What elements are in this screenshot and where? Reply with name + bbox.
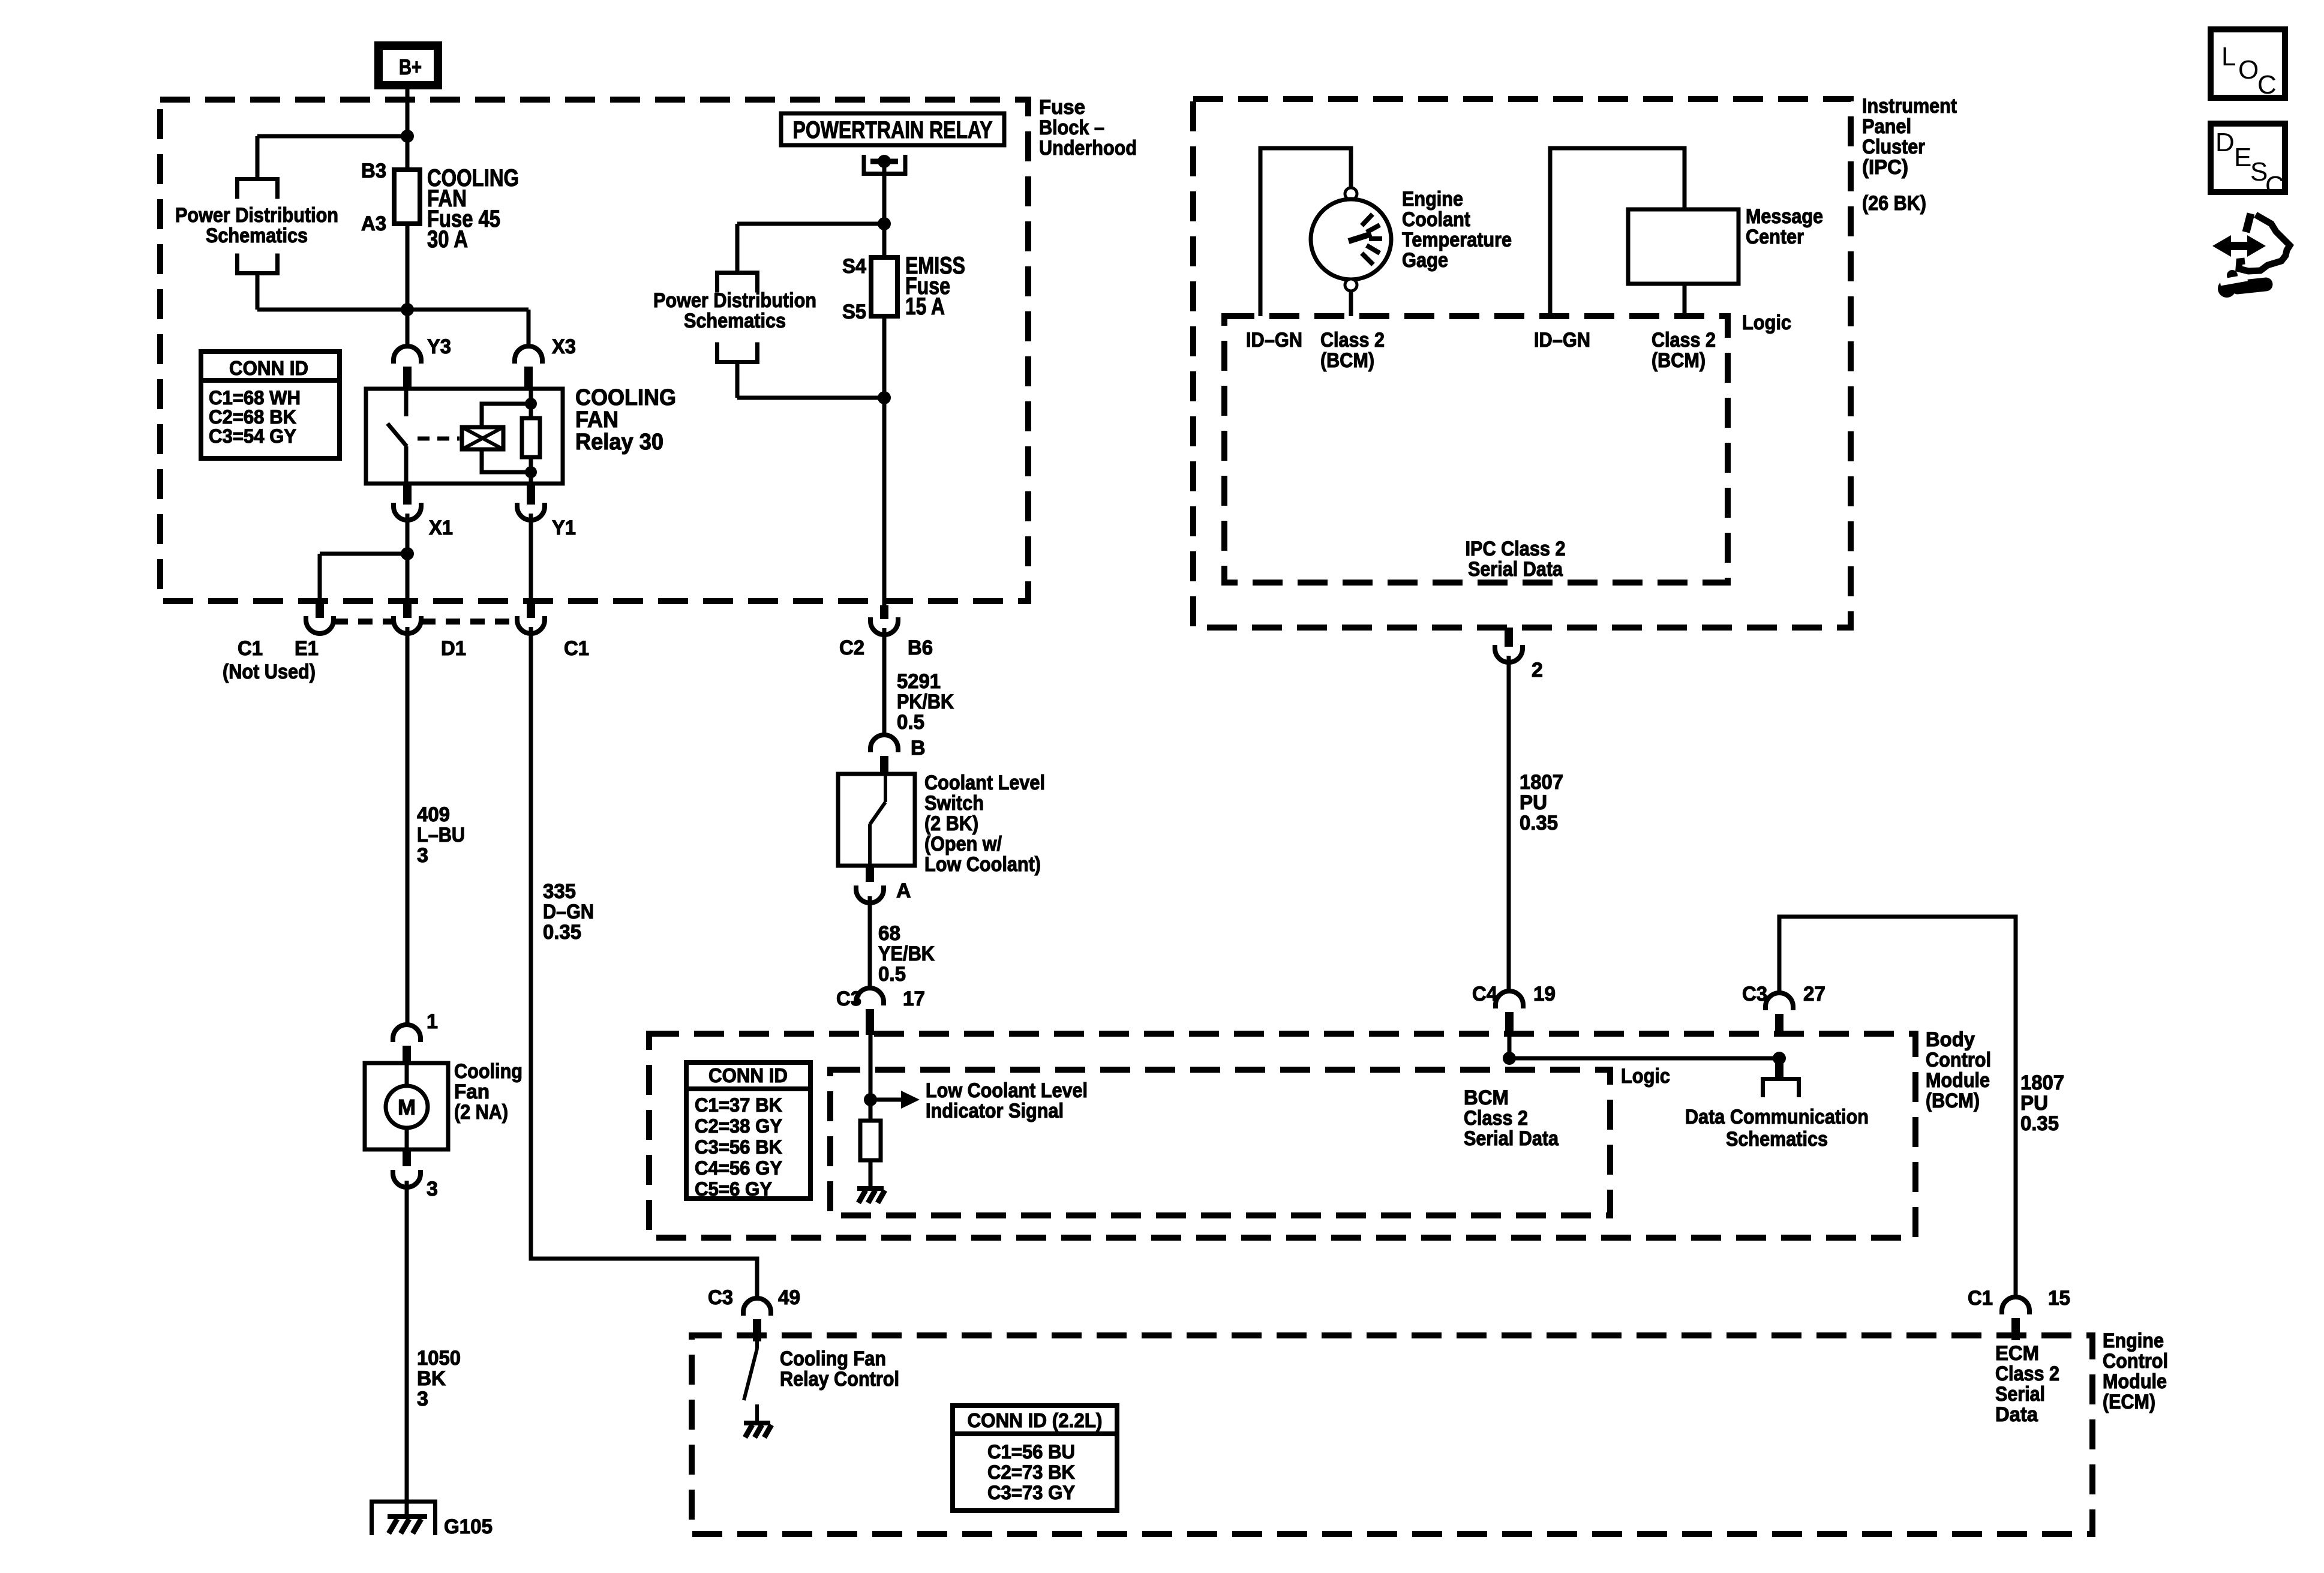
label C2 [839,637,864,659]
svg-text:M: M [398,1095,416,1119]
label COOLING FAN Relay 30 [575,385,676,455]
label X1 [429,517,453,539]
wire 335 D-GN 0.35 [531,627,757,1298]
relay coil wiring [482,404,531,472]
relay actuation dashed link [418,437,460,441]
connector table CONN ID 2.2L [950,1406,1119,1511]
svg-text:3: 3 [417,844,428,867]
label C1 (left) [238,637,263,660]
label circuit 5291 PK/BK 0.5 [897,670,954,734]
label 49 [778,1286,800,1309]
label circuit 1050 BK 3 [417,1347,461,1410]
connector pin Y1 [517,484,545,520]
connector pin A coolant level switch [856,866,884,903]
label pin 1 [427,1010,438,1033]
wire to power distribution (EMISS) [737,224,884,272]
svg-text:Switch: Switch [924,792,984,815]
connector C3 cavity 27 (BCM) [1765,993,1793,1035]
svg-text:A: A [896,879,911,902]
label Power Distribution Schematics (fuse block) [175,204,338,247]
label Fuse Block - Underhood [1039,96,1137,160]
label C4 [1472,983,1497,1005]
svg-text:O: O [2238,55,2259,85]
svg-text:C4: C4 [1472,983,1497,1005]
svg-text:Module: Module [2103,1370,2167,1393]
svg-text:Underhood: Underhood [1039,137,1137,160]
svg-text:C1: C1 [1968,1287,1993,1310]
off-page reference Power Distribution Schematics (fuse block) [238,179,278,274]
svg-text:Gage: Gage [1402,249,1448,272]
svg-text:E1: E1 [295,637,319,660]
svg-text:CONN ID: CONN ID [229,357,308,379]
svg-text:1050: 1050 [417,1347,461,1370]
svg-text:C1=56 BU: C1=56 BU [987,1441,1075,1463]
svg-text:Schematics: Schematics [684,310,786,332]
motor M cooling fan [365,1063,448,1149]
svg-text:C3=56 BK: C3=56 BK [695,1136,782,1158]
svg-text:Fan: Fan [454,1080,490,1103]
label E1 [295,637,319,660]
svg-text:Relay 30: Relay 30 [575,430,663,455]
svg-text:S5: S5 [842,301,866,323]
wire to connector C2 B6 [882,398,887,605]
svg-text:335: 335 [543,880,576,903]
svg-text:B+: B+ [399,55,422,79]
svg-text:PK/BK: PK/BK [897,691,954,713]
svg-text:(BCM): (BCM) [1652,349,1706,372]
ECM driver switch cooling fan relay control [744,1341,757,1421]
svg-text:2: 2 [1532,659,1543,682]
svg-text:B3: B3 [361,160,386,182]
junction node BCM serial data (C4) [1503,1052,1516,1065]
svg-text:Logic: Logic [1621,1065,1670,1088]
svg-text:X1: X1 [429,517,453,539]
label C3 (27) [1742,983,1767,1005]
svg-text:Schematics: Schematics [1726,1128,1828,1151]
svg-text:Logic: Logic [1742,311,1791,334]
label Coolant Level Switch (2 BK) (Open w/ Low Coolant) [924,772,1045,876]
svg-text:C: C [2257,70,2277,100]
svg-text:L: L [2221,42,2236,71]
label Engine Coolant Temperature Gage [1402,188,1512,272]
wire C3-17 into BCM [869,1035,873,1121]
connector table CONN ID fuse block [199,352,342,458]
label Cooling Fan (2 NA) [454,1060,523,1124]
svg-text:YE/BK: YE/BK [878,942,935,965]
svg-text:CONN ID: CONN ID [708,1064,788,1086]
connector pin X1 [394,484,421,520]
label ID-GN (gauge) [1246,329,1302,352]
svg-text:0.5: 0.5 [897,711,924,734]
label C1 (right) [564,637,589,660]
svg-text:BK: BK [417,1367,446,1390]
svg-text:C3: C3 [708,1286,733,1309]
connector pin B coolant level switch [870,735,898,774]
label IPC Class 2 Serial Data [1466,538,1566,581]
label circuit 1807 PU 0.35 (IPC run) [1520,771,1563,834]
label Low Coolant Level Indicator Signal [926,1079,1088,1122]
svg-text:409: 409 [417,803,450,826]
svg-text:L–BU: L–BU [417,824,465,846]
svg-text:(Not Used): (Not Used) [223,661,316,683]
wire B+ to fuse 45 [406,84,410,170]
svg-text:Y1: Y1 [552,517,576,539]
label Y3 [427,335,451,358]
svg-text:Engine: Engine [2103,1329,2164,1352]
wire fuse 45 to relay feed [257,224,529,347]
label BCM Class 2 Serial Data [1464,1086,1559,1150]
svg-text:PU: PU [2020,1092,2048,1115]
label C1 (15) [1968,1287,1993,1310]
label EMISS Fuse 15 A [905,253,965,320]
svg-text:Coolant Level: Coolant Level [924,772,1045,794]
svg-text:0.35: 0.35 [543,921,581,944]
svg-text:Power Distribution: Power Distribution [653,289,816,312]
pin label S4 [842,255,866,278]
svg-text:Control: Control [2103,1350,2168,1373]
svg-text:G105: G105 [444,1515,493,1538]
wire resistor to ground [869,1160,873,1187]
label 17 [903,987,925,1010]
svg-text:POWERTRAIN RELAY: POWERTRAIN RELAY [793,117,993,143]
svg-text:C3=54 GY: C3=54 GY [209,425,296,447]
icon DESC [2211,124,2285,200]
svg-text:Data Communication: Data Communication [1685,1106,1869,1128]
junction node coil bottom [525,466,537,478]
svg-text:C2=68 BK: C2=68 BK [209,406,296,428]
wire 68 YE/BK 0.5 [868,896,872,988]
wire X1 down with branch to E1 [320,514,407,601]
svg-text:C2: C2 [839,637,864,659]
wire message center feed [1550,148,1685,316]
svg-text:D: D [2215,128,2235,157]
label Engine Control Module (ECM) [2103,1329,2168,1413]
svg-text:(BCM): (BCM) [1926,1089,1980,1112]
svg-text:Serial Data: Serial Data [1468,558,1563,581]
svg-text:C3=73 GY: C3=73 GY [987,1482,1075,1503]
pin label A3 [361,212,386,235]
svg-text:IPC Class 2: IPC Class 2 [1466,538,1566,560]
connector pin 2 IPC [1495,628,1523,662]
svg-text:15 A: 15 A [905,293,945,320]
svg-text:COOLING: COOLING [575,385,676,410]
label Message Center [1746,205,1823,248]
label circuit 1807 PU 0.35 (ECM run) [2020,1071,2064,1135]
label pin 2 [1532,659,1543,682]
connector C1 cavity E1 (not used) [306,601,334,634]
label 19 [1533,983,1556,1005]
svg-text:Serial Data: Serial Data [1464,1127,1559,1150]
connector C2 cavity B6 [870,605,898,635]
BCM logic dashed boundary [830,1070,1610,1215]
svg-text:ECM: ECM [1995,1342,2039,1365]
label 15 [2048,1287,2070,1310]
label Logic (BCM) [1621,1065,1670,1088]
label (Not Used) [223,661,316,683]
svg-text:CONN ID (2.2L): CONN ID (2.2L) [968,1409,1103,1431]
connector pin X3 [515,346,542,389]
off-page reference Power Distribution Schematics (EMISS) [717,273,758,362]
connector face dotted line [334,619,517,625]
svg-text:Engine: Engine [1402,188,1463,211]
label X3 [552,335,576,358]
svg-text:Data: Data [1995,1403,2038,1426]
connector pin 3 cooling fan [393,1149,421,1187]
svg-text:E: E [2234,143,2251,172]
connector pin 1 cooling fan [393,1025,421,1063]
svg-text:Indicator Signal: Indicator Signal [926,1100,1064,1122]
svg-text:Temperature: Temperature [1402,229,1512,251]
junction node powertrain feed [878,217,891,230]
svg-text:ID–GN: ID–GN [1534,329,1590,352]
svg-text:Panel: Panel [1862,115,1911,138]
svg-text:BCM: BCM [1464,1086,1509,1109]
wire 1050 BK 3 [405,1181,409,1515]
label circuit 68 YE/BK 0.5 [878,922,935,986]
off-page reference Data Communication Schematics [1763,1079,1799,1098]
label D1 [441,637,466,660]
svg-text:(BCM): (BCM) [1320,349,1374,372]
connector C1 cavity C1(right) [517,601,545,634]
svg-text:A3: A3 [361,212,386,235]
wire EMISS fuse down [737,316,884,398]
wire branch to power distribution (top) [257,136,407,179]
connector C3 cavity 49 (ECM) [743,1298,771,1341]
wire Y1 down [529,514,533,601]
fuse EMISS 15A [871,257,897,316]
svg-text:Center: Center [1746,226,1804,248]
wire gauge feed [1260,148,1351,316]
engine control module dashed boundary [692,1335,2092,1534]
junction node below B+ [401,130,414,143]
svg-text:Cooling Fan: Cooling Fan [780,1347,886,1370]
connector C3 cavity 17 (BCM) [856,988,884,1035]
svg-text:Class 2: Class 2 [1320,329,1385,352]
label Instrument Panel Cluster (IPC) (26 BK) [1862,95,1957,215]
label 27 [1803,983,1825,1005]
svg-text:C2=73 BK: C2=73 BK [987,1461,1075,1483]
junction node indicator signal [864,1093,877,1106]
svg-text:3: 3 [417,1388,428,1410]
label Class 2 BCM (gauge) [1320,329,1385,372]
svg-text:Message: Message [1746,205,1823,228]
label Body Control Module (BCM) [1926,1028,1991,1112]
svg-text:0.35: 0.35 [2020,1112,2059,1135]
wire 5291 PK/BK 0.5 [882,628,887,735]
svg-text:(Open w/: (Open w/ [924,833,1002,855]
svg-text:(2 BK): (2 BK) [924,812,978,835]
svg-text:Low Coolant): Low Coolant) [924,853,1041,876]
svg-text:PU: PU [1520,791,1547,814]
connector table CONN ID BCM [684,1062,813,1200]
svg-text:C1: C1 [238,637,263,660]
svg-text:C1=68 WH: C1=68 WH [209,387,301,409]
svg-text:Schematics: Schematics [206,224,308,247]
svg-text:5291: 5291 [897,670,941,693]
ground ECM internal [744,1423,771,1437]
svg-text:B6: B6 [908,637,933,659]
svg-text:C2=38 GY: C2=38 GY [695,1115,782,1137]
powertrain relay feed box [781,113,1004,145]
label pin 3 [427,1178,438,1200]
svg-text:0.5: 0.5 [878,963,906,986]
svg-text:27: 27 [1803,983,1825,1005]
svg-text:D1: D1 [441,637,466,660]
svg-text:0.35: 0.35 [1520,812,1558,834]
pin label B3 [361,160,386,182]
connector C4 cavity 19 (BCM) [1496,991,1523,1036]
svg-text:Serial: Serial [1995,1383,2045,1406]
svg-text:Class 2: Class 2 [1464,1107,1528,1130]
label COOLING FAN Fuse 45 30 A [427,165,519,253]
wire BCM serial data bus [1509,1056,1779,1061]
arrow low coolant level indicator signal [870,1091,920,1109]
svg-text:Body: Body [1926,1028,1975,1051]
svg-text:Fuse: Fuse [1039,96,1085,119]
connector C1 cavity D1 [394,601,421,634]
svg-text:1807: 1807 [2020,1071,2064,1094]
svg-text:49: 49 [778,1286,800,1309]
svg-text:(IPC): (IPC) [1862,156,1908,179]
svg-text:Control: Control [1926,1049,1991,1071]
svg-text:1: 1 [427,1010,438,1033]
svg-text:3: 3 [427,1178,438,1200]
svg-text:19: 19 [1533,983,1556,1005]
svg-text:C1: C1 [564,637,589,660]
powertrain relay output terminal [864,155,905,224]
label ECM Class 2 Serial Data [1995,1342,2059,1426]
svg-text:C4=56 GY: C4=56 GY [695,1157,782,1179]
wire IPC data into BCM junction [1508,1036,1512,1058]
junction node BCM serial data (C3-27) [1773,1052,1786,1065]
connector C1 cavity 15 (ECM) [2002,1297,2029,1340]
wire 409 L-BU 3 [406,627,410,1025]
ground BCM internal [857,1188,885,1203]
fuse F45 COOLING FAN 30A [394,170,420,224]
svg-text:Class 2: Class 2 [1995,1362,2059,1385]
svg-text:15: 15 [2048,1287,2070,1310]
svg-text:Instrument: Instrument [1862,95,1957,118]
svg-text:17: 17 [903,987,925,1010]
IPC logic dashed boundary [1224,316,1728,583]
svg-text:ID–GN: ID–GN [1246,329,1302,352]
junction node EMISS fuse output [878,391,891,404]
label circuit 409 L-BU 3 [417,803,465,867]
junction node coil top [525,398,537,410]
svg-text:68: 68 [878,922,900,945]
svg-text:(ECM): (ECM) [2103,1391,2155,1413]
label ID-GN (message center) [1534,329,1590,352]
svg-text:1807: 1807 [1520,771,1563,794]
label C3 (17) [836,987,861,1010]
connector pin Y3 [394,346,421,389]
svg-text:Module: Module [1926,1069,1990,1092]
label pin A [896,879,911,902]
svg-text:Low Coolant Level: Low Coolant Level [926,1079,1088,1102]
ground G105 [372,1502,436,1535]
body control module dashed boundary [649,1034,1915,1238]
relay internal resistor [522,389,540,484]
pin label S5 [842,301,866,323]
label Class 2 BCM (message center) [1652,329,1716,372]
svg-text:(2 NA): (2 NA) [454,1101,508,1124]
svg-text:B: B [911,737,926,760]
svg-text:C5=6 GY: C5=6 GY [695,1178,772,1200]
wire EMISS fuse top [882,224,887,257]
svg-text:Block –: Block – [1039,116,1104,139]
coolant level switch S box [838,774,915,866]
relay switch contact [388,389,407,484]
svg-text:Relay Control: Relay Control [780,1368,899,1391]
relay K - cooling fan relay 30 box [366,389,563,484]
gauge engine coolant temperature [1311,188,1391,316]
svg-text:Cooling: Cooling [454,1060,523,1083]
label Cooling Fan Relay Control [780,1347,899,1391]
resistor BCM pull-up [860,1121,881,1160]
label Logic (IPC) [1742,311,1791,334]
svg-text:C3: C3 [1742,983,1767,1005]
svg-text:X3: X3 [552,335,576,358]
icon hand double arrow wrench [2212,214,2290,298]
junction node X1 branch [401,547,414,560]
relay coil with X [462,427,503,449]
svg-text:Class 2: Class 2 [1652,329,1716,352]
message center box [1628,209,1739,316]
label circuit 335 D-GN 0.35 [543,880,594,944]
label Power Distribution Schematics (EMISS) [653,289,816,332]
svg-text:C3: C3 [836,987,861,1010]
svg-text:C1=37 BK: C1=37 BK [695,1094,782,1116]
wire 1807 PU 0.35 (IPC to BCM) [1507,656,1511,991]
label C3 (49) [708,1286,733,1309]
icon LOC [2211,29,2285,100]
svg-text:Cluster: Cluster [1862,136,1925,158]
svg-text:30 A: 30 A [427,226,468,253]
svg-text:FAN: FAN [575,407,618,433]
label G105 [444,1515,493,1538]
label B6 [908,637,933,659]
svg-text:S4: S4 [842,255,866,278]
label Y1 [552,517,576,539]
svg-text:C: C [2265,171,2284,200]
svg-text:D–GN: D–GN [543,900,594,923]
fuse block - underhood dashed boundary [160,100,1028,601]
svg-text:Power Distribution: Power Distribution [175,204,338,227]
svg-text:Coolant: Coolant [1402,208,1470,231]
label Data Communication Schematics [1685,1106,1869,1151]
svg-text:Y3: Y3 [427,335,451,358]
junction node at fuse output [401,303,414,316]
label pin B [911,737,926,760]
power symbol B+ battery feed [379,46,438,85]
instrument panel cluster dashed boundary [1193,99,1851,628]
wire 1807 PU 0.35 (BCM to ECM) [1779,917,2016,1297]
wire junction to data communication reference [1775,1058,1783,1077]
svg-text:(26 BK): (26 BK) [1862,192,1926,215]
